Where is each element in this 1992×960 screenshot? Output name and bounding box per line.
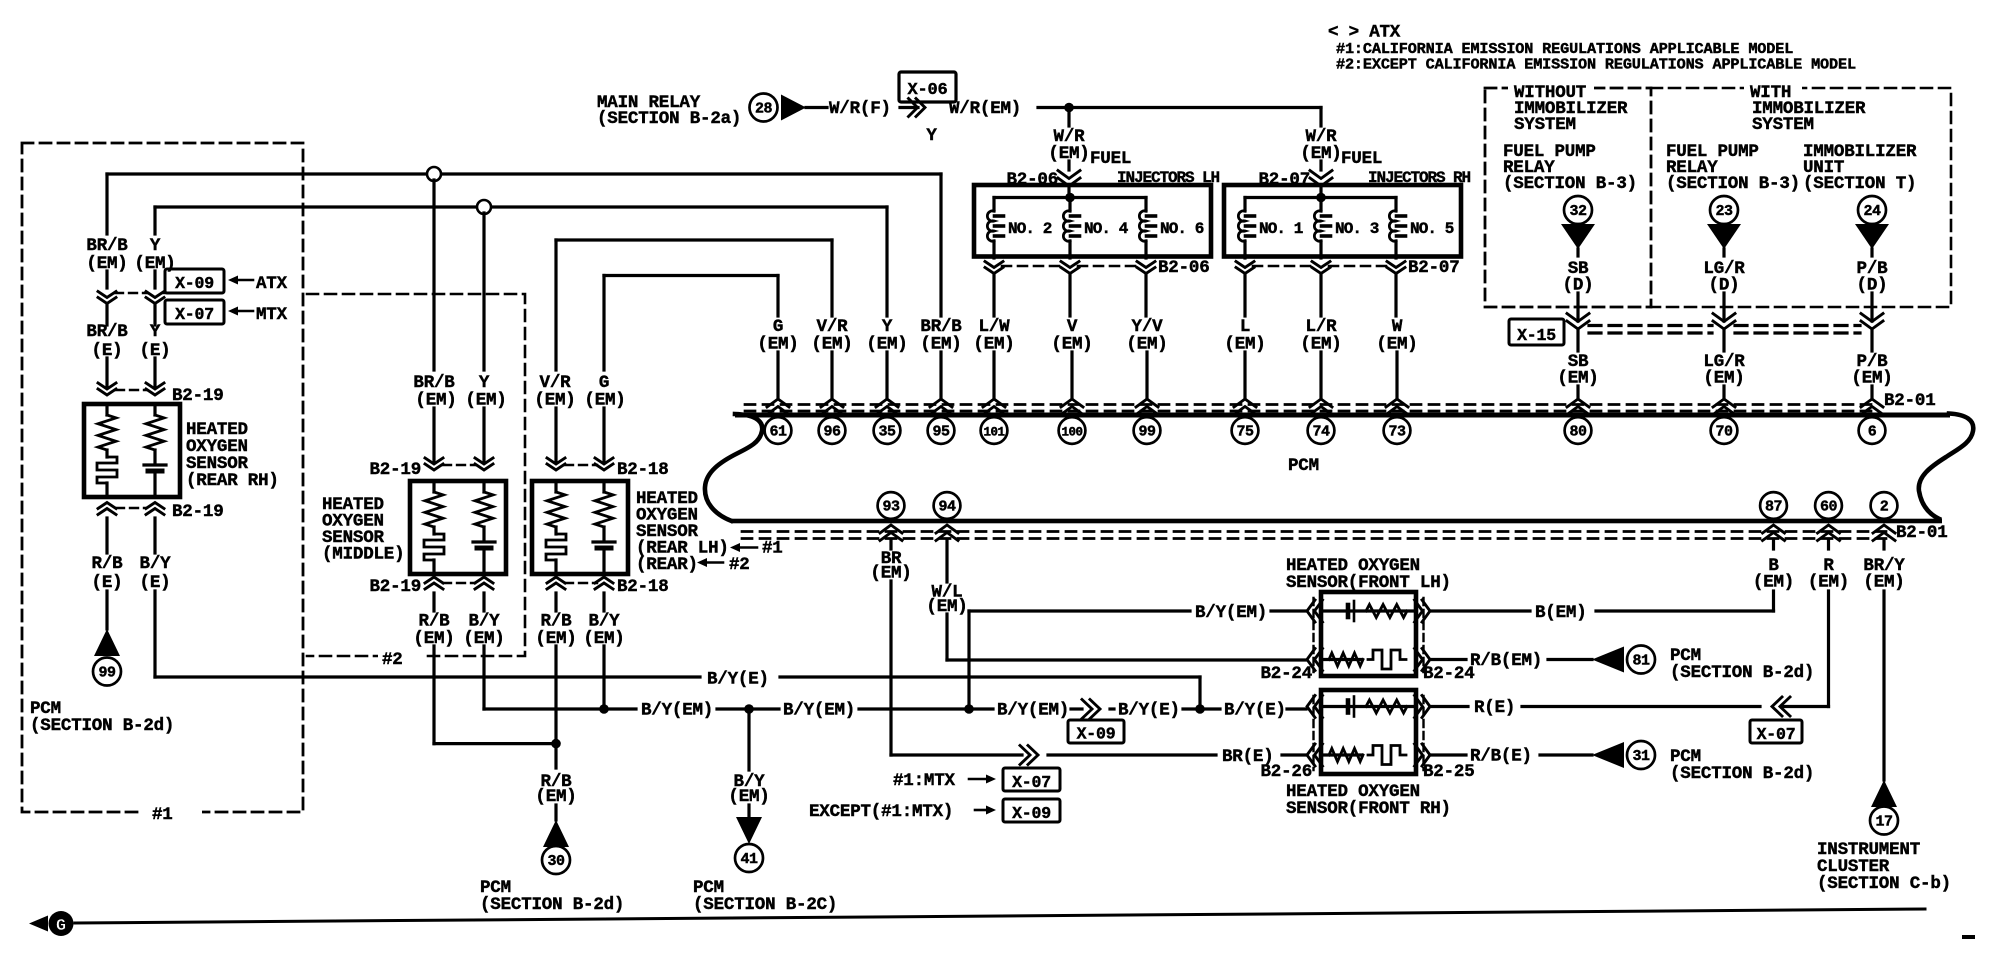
- svg-text:#1: #1: [762, 539, 783, 559]
- svg-text:(REAR RH): (REAR RH): [186, 471, 279, 491]
- svg-text:B/Y(EM): B/Y(EM): [1195, 603, 1267, 623]
- svg-text:74: 74: [1312, 424, 1330, 441]
- svg-text:B2-07: B2-07: [1408, 258, 1460, 278]
- svg-text:(SECTION B-3): (SECTION B-3): [1503, 174, 1637, 194]
- svg-text:94: 94: [938, 499, 956, 516]
- svg-text:(SECTION B-2d): (SECTION B-2d): [1670, 764, 1814, 784]
- svg-text:B2-01: B2-01: [1884, 391, 1936, 411]
- svg-text:(SECTION B-2d): (SECTION B-2d): [1670, 663, 1814, 683]
- svg-text:X-07: X-07: [1012, 773, 1051, 792]
- svg-text:(EM): (EM): [1753, 573, 1794, 593]
- svg-text:17: 17: [1875, 814, 1892, 831]
- svg-text:(SECTION B-2d): (SECTION B-2d): [30, 716, 174, 736]
- svg-text:X-07: X-07: [1757, 725, 1796, 744]
- svg-text:SYSTEM: SYSTEM: [1752, 115, 1814, 135]
- svg-text:B/Y: B/Y: [140, 554, 172, 574]
- svg-text:R/B: R/B: [92, 554, 124, 574]
- svg-text:B2-01: B2-01: [1896, 523, 1948, 543]
- svg-text:(SECTION B-3): (SECTION B-3): [1666, 174, 1800, 194]
- svg-text:B2-18: B2-18: [617, 460, 669, 480]
- svg-text:R(E): R(E): [1474, 698, 1515, 718]
- svg-text:#2:EXCEPT CALIFORNIA EMISSION: #2:EXCEPT CALIFORNIA EMISSION REGULATION…: [1336, 56, 1856, 74]
- svg-text:(SECTION B-2a): (SECTION B-2a): [597, 109, 741, 129]
- svg-text:X-15: X-15: [1517, 326, 1556, 345]
- svg-text:B/Y(EM): B/Y(EM): [641, 701, 713, 721]
- svg-text:NO. 6: NO. 6: [1160, 220, 1204, 238]
- svg-text:101: 101: [983, 426, 1004, 440]
- svg-text:MTX: MTX: [256, 305, 288, 325]
- svg-text:28: 28: [755, 101, 773, 118]
- svg-text:#1:MTX: #1:MTX: [893, 771, 956, 791]
- svg-text:B2-19: B2-19: [172, 502, 224, 522]
- svg-text:70: 70: [1715, 424, 1733, 441]
- svg-text:99: 99: [1138, 424, 1156, 441]
- svg-text:32: 32: [1569, 203, 1587, 220]
- svg-text:SYSTEM: SYSTEM: [1514, 115, 1576, 135]
- svg-text:X-07: X-07: [175, 305, 214, 324]
- svg-text:(EM): (EM): [415, 391, 456, 411]
- svg-text:(SECTION T): (SECTION T): [1803, 174, 1916, 194]
- svg-text:#1: #1: [152, 805, 173, 825]
- svg-text:93: 93: [882, 499, 900, 516]
- svg-text:96: 96: [823, 424, 841, 441]
- svg-text:(SECTION B-2C): (SECTION B-2C): [693, 895, 837, 915]
- svg-text:B/Y(E): B/Y(E): [707, 670, 769, 690]
- svg-text:W/R(F): W/R(F): [829, 99, 891, 119]
- svg-text:NO. 1: NO. 1: [1259, 220, 1303, 238]
- svg-text:31: 31: [1632, 748, 1650, 765]
- svg-text:R/B(E): R/B(E): [1470, 747, 1532, 767]
- svg-text:75: 75: [1236, 424, 1254, 441]
- svg-text:R/B(EM): R/B(EM): [1470, 651, 1542, 671]
- svg-text:6: 6: [1868, 424, 1877, 441]
- svg-text:80: 80: [1569, 424, 1587, 441]
- svg-text:B2-26: B2-26: [1260, 762, 1312, 782]
- svg-text:ATX: ATX: [256, 274, 288, 294]
- svg-text:NO. 2: NO. 2: [1008, 220, 1052, 238]
- svg-text:B/Y(EM): B/Y(EM): [783, 701, 855, 721]
- svg-text:24: 24: [1863, 203, 1881, 220]
- svg-text:G: G: [56, 917, 66, 936]
- svg-text:B2-06: B2-06: [1158, 258, 1210, 278]
- svg-text:B2-25: B2-25: [1423, 762, 1475, 782]
- svg-text:60: 60: [1820, 499, 1838, 516]
- svg-text:NO. 5: NO. 5: [1410, 220, 1454, 238]
- svg-text:BR/B: BR/B: [86, 236, 128, 256]
- svg-text:61: 61: [769, 424, 787, 441]
- svg-text:B2-24: B2-24: [1423, 664, 1475, 684]
- svg-text:87: 87: [1765, 499, 1782, 516]
- svg-text:B/Y(E): B/Y(E): [1118, 701, 1180, 721]
- svg-text:X-09: X-09: [1012, 804, 1051, 823]
- svg-text:(SECTION B-2d): (SECTION B-2d): [480, 895, 624, 915]
- svg-text:23: 23: [1715, 203, 1733, 220]
- svg-text:95: 95: [932, 424, 950, 441]
- svg-text:41: 41: [740, 851, 758, 868]
- svg-text:W/R(EM): W/R(EM): [949, 99, 1021, 119]
- svg-text:(MIDDLE): (MIDDLE): [322, 545, 404, 565]
- svg-text:#2: #2: [382, 650, 403, 670]
- svg-text:Y: Y: [150, 236, 161, 256]
- svg-text:(SECTION C-b): (SECTION C-b): [1817, 874, 1951, 894]
- svg-text:#2: #2: [729, 555, 750, 575]
- svg-text:B2-18: B2-18: [617, 577, 669, 597]
- svg-text:NO. 4: NO. 4: [1084, 220, 1129, 238]
- svg-text:X-06: X-06: [907, 81, 947, 100]
- svg-text:B2-19: B2-19: [369, 577, 421, 597]
- svg-text:(EM): (EM): [465, 391, 506, 411]
- svg-text:FUEL: FUEL: [1341, 149, 1382, 169]
- svg-text:X-09: X-09: [175, 274, 214, 293]
- svg-text:EXCEPT(#1:MTX): EXCEPT(#1:MTX): [809, 802, 953, 822]
- svg-text:PCM: PCM: [1288, 456, 1319, 476]
- svg-text:2: 2: [1880, 499, 1889, 516]
- svg-text:NO. 3: NO. 3: [1335, 220, 1379, 238]
- svg-text:73: 73: [1388, 424, 1406, 441]
- svg-text:100: 100: [1061, 426, 1082, 440]
- svg-text:35: 35: [878, 424, 896, 441]
- svg-text:(REAR): (REAR): [636, 555, 698, 575]
- svg-text:81: 81: [1632, 653, 1650, 670]
- svg-text:X-09: X-09: [1077, 725, 1116, 744]
- svg-text:Y: Y: [926, 126, 937, 146]
- svg-text:(EM): (EM): [1808, 573, 1849, 593]
- svg-text:FUEL: FUEL: [1090, 149, 1131, 169]
- svg-text:B2-19: B2-19: [369, 460, 421, 480]
- svg-text:99: 99: [98, 665, 116, 682]
- svg-text:B/Y(EM): B/Y(EM): [997, 701, 1069, 721]
- svg-text:30: 30: [547, 853, 565, 870]
- svg-text:SENSOR(FRONT RH): SENSOR(FRONT RH): [1286, 799, 1451, 819]
- svg-text:B2-24: B2-24: [1260, 664, 1312, 684]
- svg-text:B(EM): B(EM): [1535, 603, 1587, 623]
- svg-text:B/Y(E): B/Y(E): [1224, 701, 1286, 721]
